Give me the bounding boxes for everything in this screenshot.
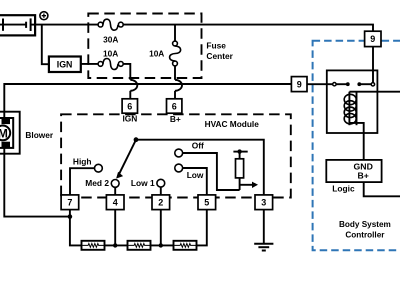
svg-text:High: High xyxy=(73,156,92,166)
svg-text:Body System: Body System xyxy=(339,220,391,229)
svg-text:M: M xyxy=(0,126,8,140)
svg-text:Center: Center xyxy=(206,51,233,61)
svg-text:Med 2: Med 2 xyxy=(85,178,109,188)
svg-text:IGN: IGN xyxy=(57,59,73,69)
svg-text:5: 5 xyxy=(204,198,209,208)
svg-text:4: 4 xyxy=(113,198,118,208)
svg-text:9: 9 xyxy=(297,79,302,89)
svg-text:9: 9 xyxy=(370,34,375,44)
svg-text:Low 1: Low 1 xyxy=(131,178,155,188)
svg-text:2: 2 xyxy=(158,198,163,208)
svg-text:30A: 30A xyxy=(103,35,118,45)
svg-text:6: 6 xyxy=(172,101,177,111)
svg-text:Logic: Logic xyxy=(332,184,355,194)
svg-text:Controller: Controller xyxy=(345,231,385,240)
svg-text:Low: Low xyxy=(187,170,204,180)
svg-text:6: 6 xyxy=(127,101,132,111)
svg-text:3: 3 xyxy=(261,198,266,208)
svg-text:10A: 10A xyxy=(149,49,164,59)
svg-text:B+: B+ xyxy=(170,114,181,124)
svg-text:10A: 10A xyxy=(103,48,118,58)
svg-text:Fuse: Fuse xyxy=(206,41,226,51)
svg-text:HVAC Module: HVAC Module xyxy=(205,119,260,129)
svg-text:IGN: IGN xyxy=(122,114,137,124)
svg-text:B+: B+ xyxy=(358,170,369,180)
svg-text:Blower: Blower xyxy=(25,130,53,140)
svg-text:Off: Off xyxy=(192,140,204,150)
svg-text:7: 7 xyxy=(67,198,72,208)
